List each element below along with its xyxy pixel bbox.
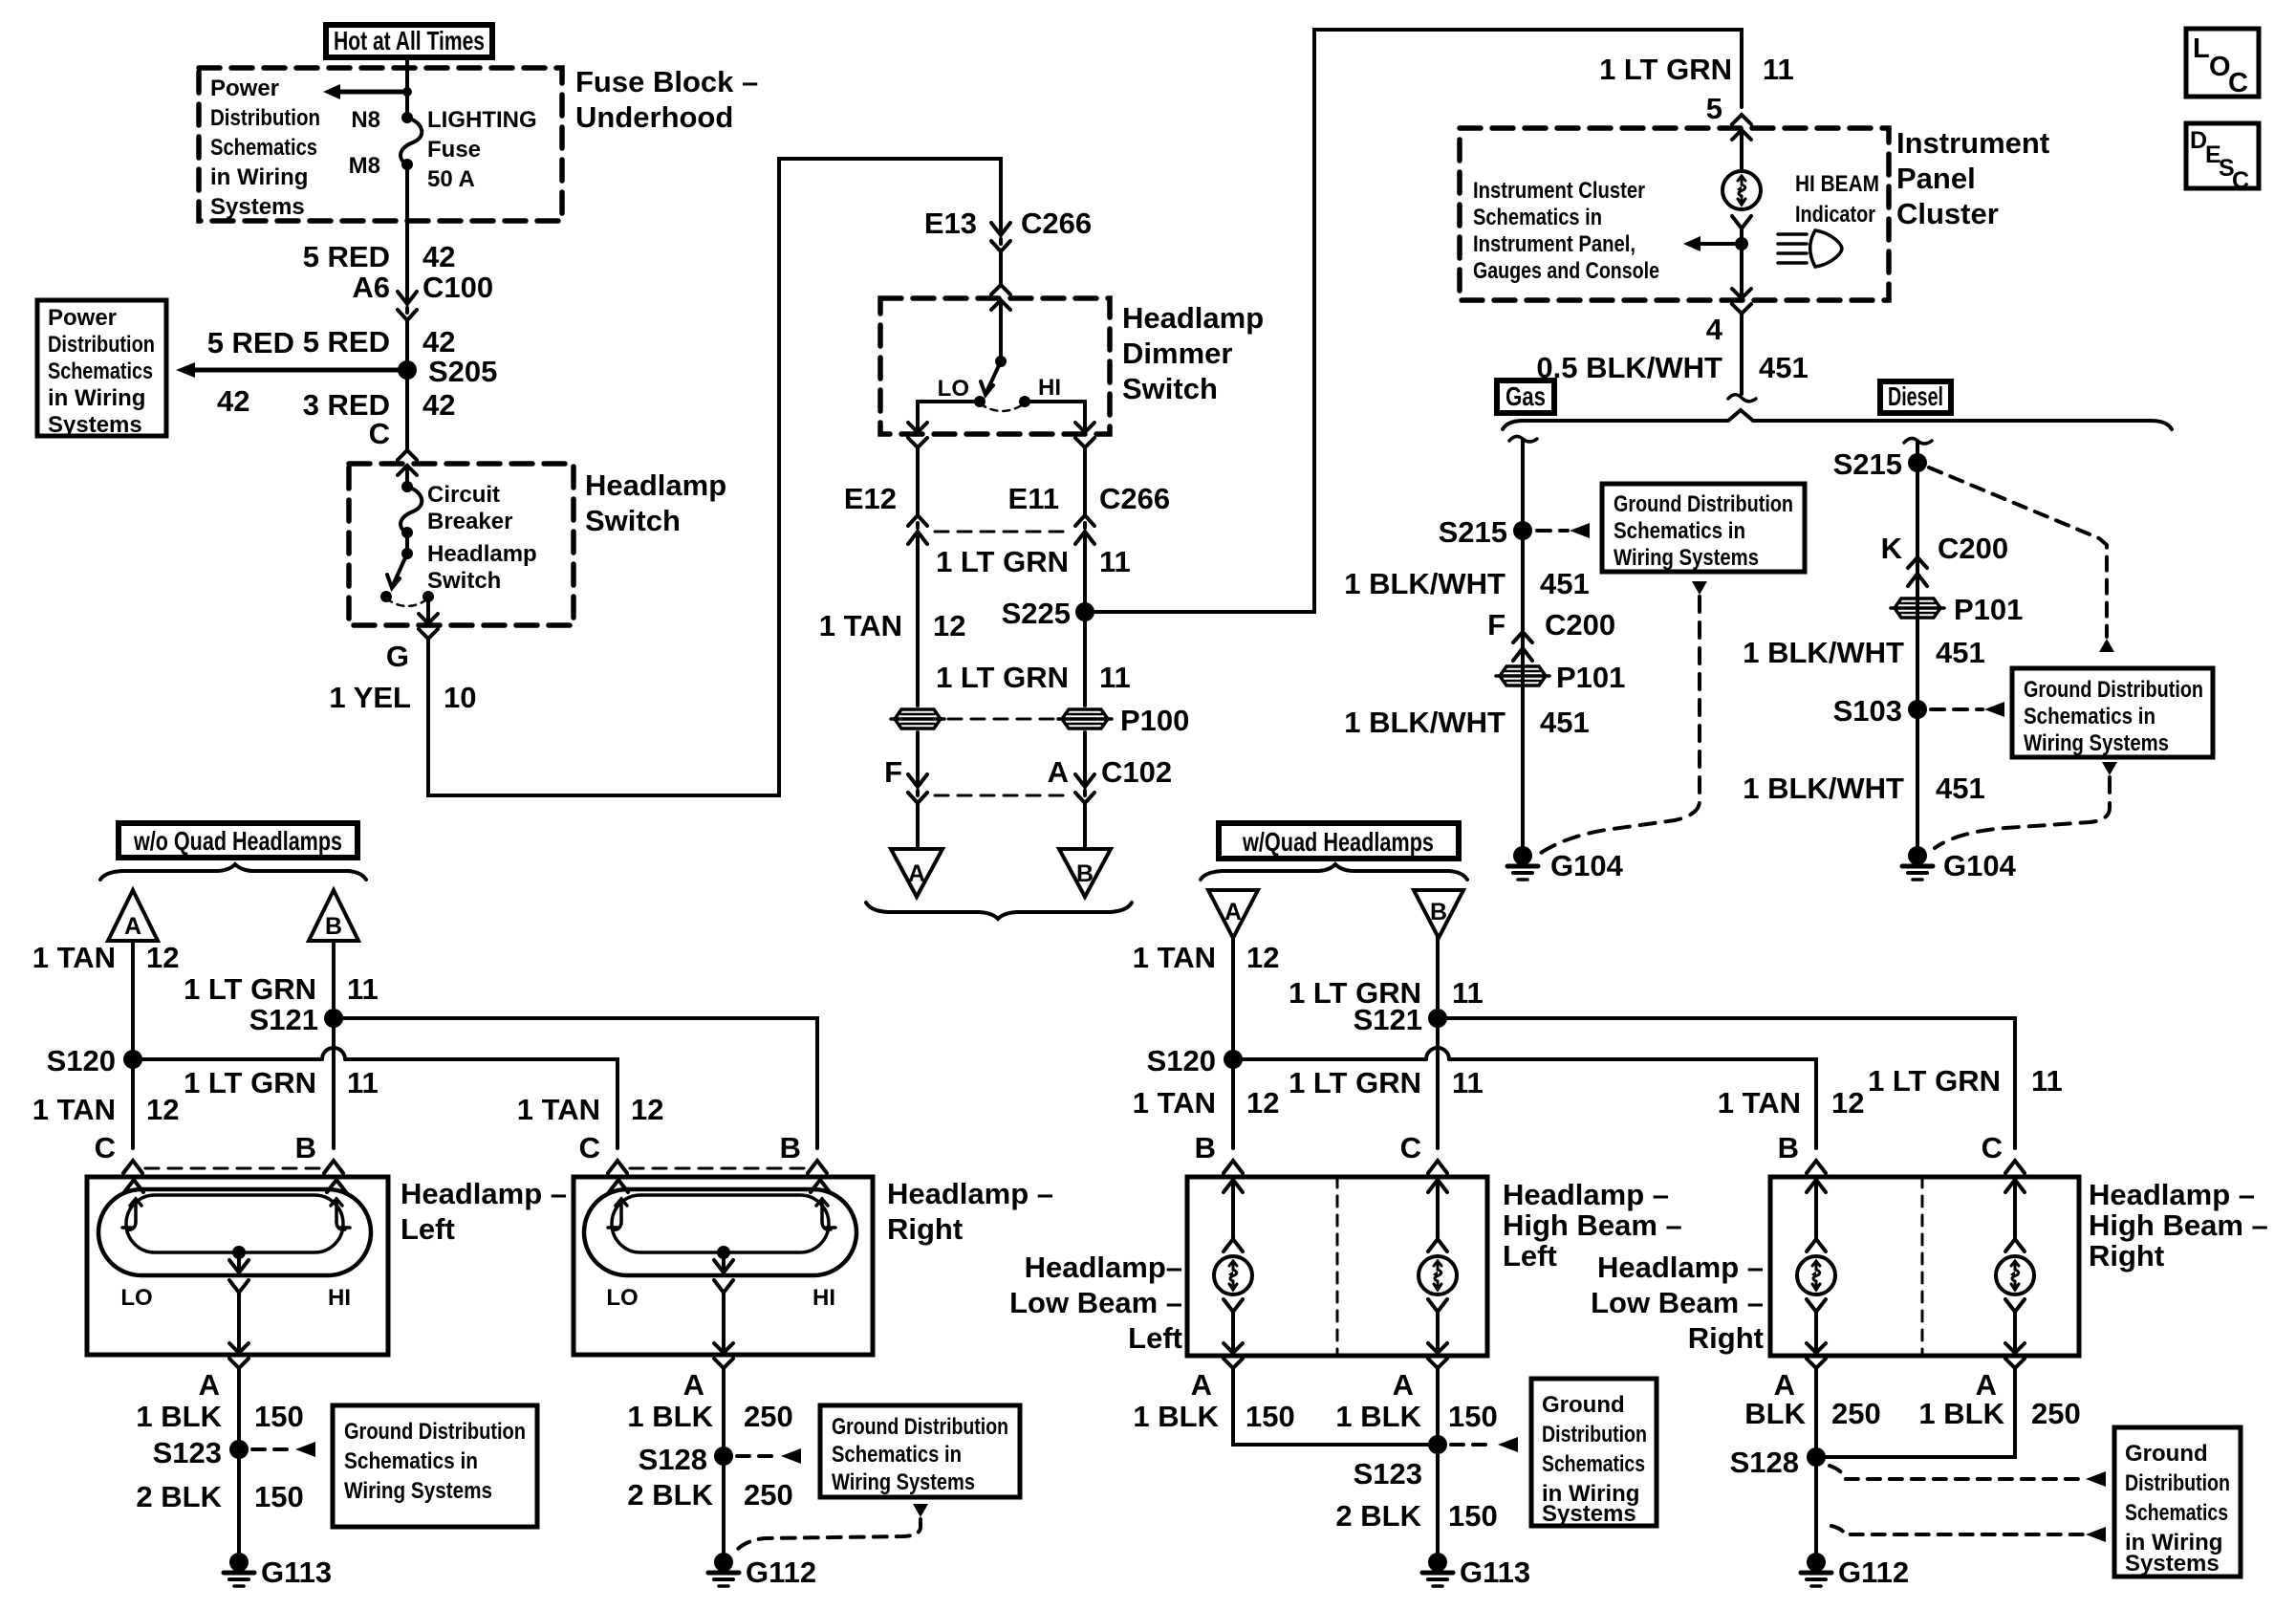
ground G113 (w/o quad) [224,1553,332,1589]
node S205 [398,355,497,388]
fuse LIGHTING Fuse 50 A [401,112,422,170]
wire breaker to switch lever [405,533,409,554]
pin C (headlamp switch) [369,417,390,450]
box Instrument Panel Cluster (dashed) [1460,128,1889,300]
svg-text:Right: Right [1688,1321,1764,1355]
headlamp switch lever [387,548,413,588]
svg-text:Indicator: Indicator [1795,202,1875,228]
box Diesel [1880,381,1951,413]
off-page reference triangle A (source) [891,849,942,897]
dashed divider (hb right box) [1921,1177,1924,1356]
wire E11 stub [1083,447,1087,515]
svg-text:Ground: Ground [2125,1441,2208,1467]
svg-text:1 TAN: 1 TAN [32,1093,116,1126]
label F [884,755,902,789]
svg-text:250: 250 [1831,1397,1881,1430]
label 2 BLK 150 (w/quad) [1335,1499,1497,1533]
svg-text:Underhood: Underhood [575,100,733,134]
label 1 LT GRN 11 (above S225) [936,545,1131,578]
label 1 YEL 10 [329,681,476,714]
svg-text:B: B [1778,1131,1799,1164]
svg-text:A6: A6 [352,271,390,304]
sealed beam outline (right) [584,1189,856,1275]
high beam bulb right (w/quad) [1996,1180,2034,1368]
svg-text:Distribution: Distribution [1542,1422,1647,1447]
chevron pin B right [808,1161,827,1173]
label P100 [1120,704,1189,737]
svg-text:Low Beam –: Low Beam – [1009,1286,1182,1319]
svg-text:Headlamp –: Headlamp – [1597,1251,1764,1284]
label 1 TAN 12 (wire A upper) [32,941,180,974]
label 1 BLK/WHT 451 (below S103) [1743,772,1985,805]
wire triangle B down to headlamp B [332,941,336,1148]
label E12 E11 C266 [844,482,1170,515]
svg-text:451: 451 [1540,567,1590,600]
svg-text:B: B [1195,1131,1216,1164]
svg-text:451: 451 [1936,636,1985,669]
svg-text:12: 12 [146,941,179,974]
svg-text:Wiring Systems: Wiring Systems [2024,730,2169,756]
svg-text:Distribution: Distribution [2125,1470,2230,1496]
label Fuse Block - Underhood [575,65,758,134]
wire fuse to C100 [405,164,409,304]
pin A labels (hb left box) [1191,1368,1414,1402]
contact HI [1019,396,1030,407]
svg-text:1 TAN: 1 TAN [819,609,902,642]
svg-text:1 LT GRN: 1 LT GRN [1599,53,1732,86]
label 1 LT GRN 11 (cluster feed) [1599,53,1794,86]
grommet P100 (left) [891,709,944,729]
svg-text:Left: Left [1503,1239,1557,1273]
svg-text:G104: G104 [1550,849,1624,882]
svg-text:C266: C266 [1099,482,1170,515]
arrow above ground box (Diesel) [2099,639,2114,652]
svg-text:12: 12 [1246,941,1279,974]
svg-text:S121: S121 [249,1003,318,1036]
label K C200 [1881,532,2009,565]
svg-text:G112: G112 [1838,1556,1909,1589]
svg-text:S205: S205 [428,355,497,388]
svg-text:0.5 BLK/WHT: 0.5 BLK/WHT [1536,351,1722,384]
label 5 RED 42 [303,240,456,273]
wire dimmer feed to lever [999,300,1003,361]
ground G112 (w/quad) [1801,1553,1909,1589]
svg-text:S215: S215 [1439,515,1507,549]
svg-text:50 A: 50 A [427,166,475,192]
svg-text:C200: C200 [1545,608,1615,642]
svg-text:Power: Power [48,305,117,331]
label Headlamp Low Beam Left [1009,1251,1182,1355]
svg-text:Ground Distribution: Ground Distribution [1614,491,1793,517]
svg-text:Left: Left [1128,1321,1182,1355]
svg-text:Ground Distribution: Ground Distribution [344,1419,526,1445]
connector C100 [398,292,417,320]
svg-text:C: C [1982,1131,2003,1164]
wire S121 to right headlamp HI [334,1018,817,1148]
pin C (headlamp left) [95,1131,116,1164]
lamp common pin (left) [229,1246,249,1368]
svg-text:1 TAN: 1 TAN [32,941,116,974]
svg-text:Systems: Systems [1542,1501,1636,1527]
label Headlamp - Left [401,1177,567,1246]
pin A labels (hb right box) [1774,1368,1997,1402]
svg-text:F: F [884,755,902,789]
wire break squiggle (451 feed) [1728,395,1756,402]
wire E11 to S225 to P100 [1083,532,1087,706]
svg-text:A: A [683,1368,704,1402]
svg-text:P101: P101 [1954,593,2023,626]
svg-text:G113: G113 [261,1556,332,1589]
svg-text:C: C [2228,68,2248,98]
svg-text:Instrument Panel,: Instrument Panel, [1473,231,1635,257]
connector C102 pin F [908,774,927,803]
pin C (headlamp right) [579,1131,600,1164]
svg-text:S120: S120 [1147,1044,1216,1077]
svg-text:150: 150 [254,1480,304,1513]
label HI (right lamp) [812,1285,835,1311]
wire E12 stub [916,447,920,515]
svg-text:Left: Left [401,1212,455,1246]
filament LO (left lamp) [122,1199,141,1229]
note Power Distribution Schematics in Wiring Systems (inside fuse block) [210,76,320,220]
svg-text:Switch: Switch [427,568,501,594]
svg-text:1 TAN: 1 TAN [517,1093,600,1126]
chevron pin C right [608,1161,627,1173]
svg-text:Headlamp –: Headlamp – [1503,1178,1669,1211]
arrow below ground box (Gas) [1692,581,1707,595]
dashed route ground box to G112 [734,1519,921,1553]
svg-text:1 TAN: 1 TAN [1133,941,1216,974]
svg-text:451: 451 [1540,706,1590,739]
svg-text:11: 11 [1763,53,1794,86]
svg-text:1 BLK: 1 BLK [1918,1397,2004,1430]
svg-text:Headlamp–: Headlamp– [1025,1251,1182,1284]
wire C266 to dimmer box [999,251,1003,285]
svg-text:150: 150 [1448,1499,1498,1533]
svg-text:5 RED: 5 RED [207,326,294,359]
svg-text:S215: S215 [1833,447,1902,481]
wire to off-page triangle B [1083,803,1087,849]
svg-text:Instrument: Instrument [1896,126,2049,160]
wire HI to E11 exit [1025,402,1094,447]
box Ground Distribution (w/quad right) [2114,1427,2241,1577]
svg-text:Low Beam –: Low Beam – [1591,1286,1764,1319]
node S120 (w/o quad) [47,1044,142,1077]
label LO (right lamp) [606,1285,638,1311]
svg-text:HI: HI [1038,375,1061,401]
svg-text:250: 250 [2031,1397,2081,1430]
label 3 RED 42 [303,388,456,422]
label 1 BLK 150 (left pair) [1133,1400,1294,1433]
wire E12 to P100 [916,532,920,706]
label 1 TAN 12 (right headlamp LO wire) [517,1093,664,1126]
svg-text:Switch: Switch [1122,372,1218,405]
pin B (headlamp right) [780,1131,801,1164]
svg-text:L: L [2193,33,2210,64]
label 0.5 BLK/WHT 451 [1536,351,1808,384]
svg-text:BLK: BLK [1744,1397,1806,1430]
off-page triangle B (destination, w/quad) [1414,890,1463,938]
svg-text:C100: C100 [422,271,493,304]
svg-text:A: A [199,1368,220,1402]
dashed reference S123 to ground box (w/quad) [1451,1437,1518,1452]
svg-text:LO: LO [938,376,969,402]
svg-text:C102: C102 [1101,755,1172,789]
svg-text:Ground: Ground [1542,1392,1625,1418]
svg-text:S123: S123 [1354,1457,1422,1490]
node S123 (w/quad) [1354,1435,1447,1490]
box Headlamp - Left [87,1177,388,1355]
icon headlamp beam symbol [1778,230,1842,267]
box DESC [2186,123,2259,194]
connector E12 C266 [908,515,927,544]
label Headlamp High Beam Left [1503,1178,1682,1273]
dashed reference S128 to ground box (w/quad) [1830,1466,2106,1487]
box Ground Distribution (w/o quad left) [333,1405,537,1527]
svg-text:Wiring Systems: Wiring Systems [344,1478,492,1504]
svg-text:B: B [295,1131,316,1164]
dashed route ground box to G104 (Gas) [1541,597,1700,853]
brace under triangles A B [866,903,1132,919]
svg-text:HI BEAM: HI BEAM [1795,171,1879,197]
arrow below ground box (Diesel) [2102,762,2117,775]
dashed link P100 [948,718,1054,721]
svg-text:1 TAN: 1 TAN [1133,1086,1216,1120]
wire headlamp left to S123 [237,1368,241,1554]
svg-text:Power: Power [210,76,279,101]
label 1 BLK 250 (right pair) [1918,1397,2080,1430]
svg-text:LO: LO [120,1285,152,1311]
svg-text:Wiring Systems: Wiring Systems [1614,545,1759,571]
dimmer switch lever [981,356,1007,395]
dashed reference G112 to ground box (w/quad) [1831,1526,2106,1542]
svg-text:Wiring Systems: Wiring Systems [832,1469,975,1495]
fuse block Fuse Block - Underhood (dashed) [199,68,562,221]
wire Diesel branch [1916,443,1919,852]
indicator lamp HI BEAM [1722,171,1761,209]
label 1 BLK/WHT 451 (above S103) [1743,636,1985,669]
svg-text:Hot at All Times: Hot at All Times [334,26,485,55]
svg-text:12: 12 [1831,1086,1864,1120]
svg-text:1 LT GRN: 1 LT GRN [936,545,1069,578]
wire S121 to high beam right C [1438,1018,2015,1148]
ground G104 (Diesel) [1902,846,2017,882]
label 1 BLK 150 [136,1400,303,1433]
svg-text:150: 150 [254,1400,304,1433]
svg-text:Systems: Systems [2125,1551,2220,1577]
pin G [386,640,409,673]
pin B (headlamp left) [295,1131,316,1164]
svg-text:1 BLK: 1 BLK [136,1400,222,1433]
filament HI (right lamp) [816,1199,835,1229]
svg-text:1 BLK/WHT: 1 BLK/WHT [1344,567,1505,600]
node S103 [1833,694,1927,728]
dashed connector line C102 [935,794,1069,797]
svg-text:12: 12 [146,1093,179,1126]
label Headlamp - Right [887,1177,1053,1246]
svg-text:Systems: Systems [48,412,142,438]
svg-text:Schematics: Schematics [48,359,153,384]
node S128 (w/quad) [1730,1446,1826,1479]
brace Gas/Diesel split [1503,410,2172,429]
svg-text:Breaker: Breaker [427,509,512,534]
wire S205 to headlamp switch [405,370,409,450]
node S121 (w/quad) [1354,1003,1447,1036]
box Headlamp High Beam Right [1770,1177,2079,1356]
pin C (high beam right) [1982,1131,2003,1164]
dashed route ground box to G104 (Diesel) [1935,777,2110,848]
svg-text:11: 11 [1099,545,1131,578]
svg-text:150: 150 [1245,1400,1295,1433]
label 1 BLK/WHT 451 (below P101 Gas) [1344,706,1590,739]
svg-text:1 BLK/WHT: 1 BLK/WHT [1344,706,1505,739]
svg-text:1 LT GRN: 1 LT GRN [1289,1066,1421,1099]
pin A (headlamp right) [683,1368,704,1402]
connector E13 C266 [991,223,1010,251]
label 1 LT GRN 11 (quad wire B upper) [1289,976,1484,1010]
label Circuit Breaker [427,482,512,534]
label 1 TAN 12 [819,609,966,642]
label A6 C100 [352,271,493,304]
node S215 (Diesel) [1833,447,1927,481]
label Headlamp Switch [585,468,726,537]
svg-text:10: 10 [444,681,476,714]
svg-text:G: G [386,640,409,673]
box Gas [1497,381,1554,413]
filament HI (left lamp) [331,1199,350,1229]
wire S120 to high beam right B (with hop) [1233,1048,1816,1148]
wire pin 4 to brace [1740,314,1744,394]
pin A (headlamp left) [199,1368,220,1402]
svg-text:5 RED: 5 RED [303,240,390,273]
pin N8 [351,107,380,133]
svg-text:1 BLK: 1 BLK [1133,1400,1219,1433]
dashed divider (hb left box) [1336,1177,1339,1356]
label LO [938,376,969,402]
entry arrows inside headlamp left [124,1180,346,1192]
label HI (left lamp) [328,1285,351,1311]
svg-text:12: 12 [933,609,965,642]
svg-text:1 LT GRN: 1 LT GRN [184,972,316,1006]
chevron below indicator [1732,216,1751,228]
svg-text:G104: G104 [1943,849,2017,882]
svg-text:2 BLK: 2 BLK [1335,1499,1421,1533]
label HI [1038,375,1061,401]
box w/o Quad Headlamps [119,823,357,858]
svg-text:Switch: Switch [585,504,681,537]
svg-text:Headlamp –: Headlamp – [887,1177,1053,1210]
pin B (high beam left) [1195,1131,1216,1164]
svg-text:B: B [1076,860,1094,887]
chevron pin C left [123,1161,142,1173]
svg-text:Schematics in: Schematics in [1614,518,1745,544]
svg-text:42: 42 [422,240,455,273]
svg-text:Fuse Block –: Fuse Block – [575,65,758,98]
svg-text:Schematics in: Schematics in [1473,205,1602,230]
svg-text:Schematics in: Schematics in [832,1442,962,1468]
label LO (left lamp) [120,1285,152,1311]
label A C102 [1048,755,1173,789]
svg-text:High Beam –: High Beam – [2089,1208,2268,1242]
entry chevrons dimmer feed [991,285,1010,310]
label 1 BLK 250 [627,1400,792,1433]
svg-text:S123: S123 [153,1436,222,1469]
svg-text:B: B [1430,899,1447,925]
box Headlamp Dimmer Switch (dashed) [880,298,1110,434]
arrow below ground box (w/o quad right) [913,1504,928,1517]
wire P100 to A C102 [1083,732,1087,787]
svg-text:Diesel: Diesel [1888,381,1943,411]
label 2 BLK 150 [136,1480,303,1513]
dashed reference S215 to ground box [1537,523,1590,538]
svg-text:11: 11 [1099,661,1131,694]
svg-text:Fuse: Fuse [427,137,481,163]
off-page reference triangle B (source) [1059,849,1111,897]
svg-text:Headlamp –: Headlamp – [401,1177,567,1210]
exit chevrons cluster pin 4 [1732,289,1751,314]
wire low beam right to G112 (w/quad) [1814,1368,1818,1554]
label HI BEAM Indicator [1795,171,1879,228]
wire pin5 to HI BEAM indicator [1740,130,1744,171]
low beam bulb left (w/quad) [1214,1180,1252,1368]
label P101 (Gas) [1556,661,1625,694]
svg-text:P100: P100 [1120,704,1189,737]
svg-text:11: 11 [2031,1064,2063,1098]
dashed reference S123 to ground box [252,1442,315,1457]
ground G104 (Gas) [1507,846,1624,882]
svg-text:G112: G112 [746,1556,816,1589]
chevron pin B (hb right) [1807,1161,1826,1173]
pin B (high beam right) [1778,1131,1799,1164]
label 42 (below arrow) [217,384,249,418]
label Instrument Panel Cluster [1896,126,2049,230]
svg-text:1 TAN: 1 TAN [1718,1086,1801,1120]
note Instrument Cluster Schematics (inside box) [1473,178,1659,284]
svg-text:Panel: Panel [1896,162,1976,195]
svg-text:A: A [1224,899,1242,925]
label 1 TAN 12 (wire A lower) [32,1093,180,1126]
wire triangle A down to headlamp C [131,941,135,1148]
svg-text:Schematics: Schematics [2125,1500,2228,1526]
pin M8 [349,153,380,179]
wire S225 to instrument cluster (long route) [1085,30,1742,612]
svg-text:HI: HI [328,1285,351,1311]
grommet P100 (right) [1058,709,1112,729]
label 2 BLK 250 [627,1478,792,1512]
svg-text:S120: S120 [47,1044,116,1077]
box Ground Distribution (Gas) [1602,484,1805,572]
svg-text:C: C [2232,167,2249,194]
off-page triangle B (destination, w/o quad) [309,890,358,941]
sealed beam outline (left) [98,1189,371,1275]
svg-text:M8: M8 [349,153,380,179]
node S128 (w/o quad) [639,1443,733,1476]
wire headlamp right to S128 [722,1368,726,1554]
svg-text:Gas: Gas [1505,381,1546,411]
svg-text:1 LT GRN: 1 LT GRN [1868,1064,2001,1098]
svg-text:1 LT GRN: 1 LT GRN [936,661,1069,694]
svg-text:Headlamp –: Headlamp – [2089,1178,2255,1211]
svg-text:250: 250 [744,1400,793,1433]
svg-text:11: 11 [1452,1066,1484,1099]
svg-text:451: 451 [1936,772,1985,805]
connector C102 pin A [1075,774,1094,803]
svg-text:Distribution: Distribution [210,105,320,131]
svg-text:Headlamp: Headlamp [427,541,537,567]
wire switch output exit [419,597,438,639]
dashed gang link LO-HI [980,403,1025,411]
svg-text:Ground Distribution: Ground Distribution [832,1414,1008,1440]
